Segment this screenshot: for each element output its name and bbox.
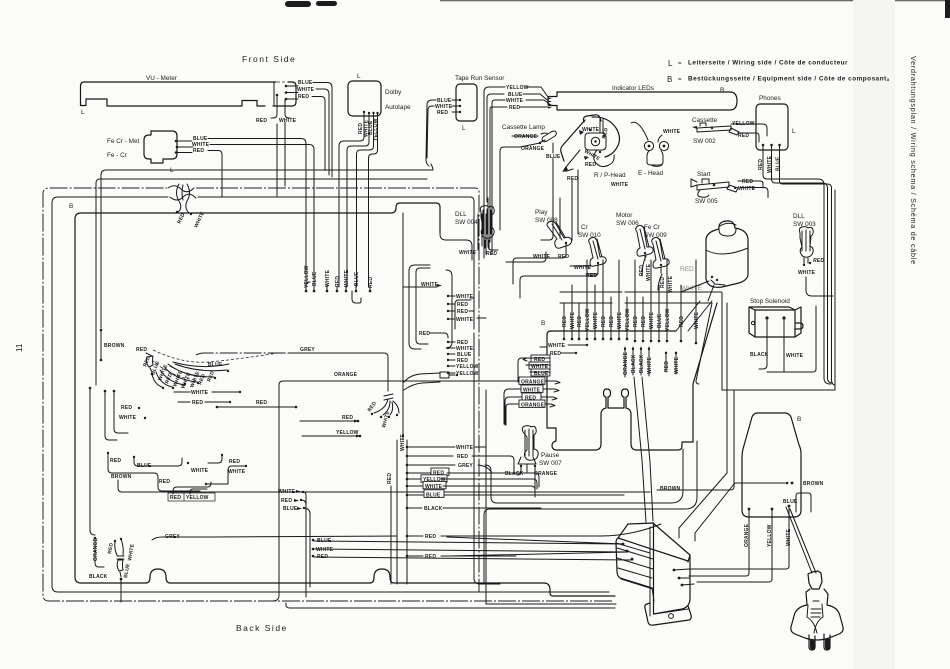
svg-text:Verdrahtungsplan / Wiring sche: Verdrahtungsplan / Wiring schema / Schém… bbox=[909, 56, 918, 265]
svg-text:WHITE: WHITE bbox=[325, 269, 331, 287]
svg-text:RED: RED bbox=[577, 316, 583, 327]
wire loop right-bottom pair bbox=[484, 441, 697, 584]
svg-text:RED: RED bbox=[110, 458, 121, 464]
svg-text:GREY: GREY bbox=[300, 347, 315, 353]
wire blue pair to plug bbox=[786, 493, 816, 573]
svg-text:ORANGE: ORANGE bbox=[93, 537, 99, 561]
Fe Cr switch SW009 bbox=[644, 224, 674, 293]
svg-text:YELLOW: YELLOW bbox=[506, 85, 529, 91]
connector bottom left bbox=[89, 537, 136, 602]
svg-text:RED: RED bbox=[558, 254, 569, 260]
central vertical wire bundle 16 bbox=[562, 260, 700, 344]
svg-text:RED: RED bbox=[680, 266, 694, 273]
svg-text:RED: RED bbox=[585, 162, 596, 168]
svg-text:BLUE: BLUE bbox=[426, 493, 441, 499]
svg-text:WHITE: WHITE bbox=[668, 275, 674, 293]
Cr switch SW010 bbox=[570, 224, 606, 279]
svg-text:Bestückungsseite / Equipment s: Bestückungsseite / Equipment side / Côte… bbox=[688, 76, 890, 83]
motor bbox=[680, 221, 748, 292]
svg-text:BROWN: BROWN bbox=[111, 474, 132, 480]
labels white red blue arrows bbox=[278, 489, 305, 512]
svg-text:RED: RED bbox=[419, 331, 430, 337]
Fe Cr-Met switch bbox=[107, 131, 314, 287]
svg-text:Indicator LEDs: Indicator LEDs bbox=[612, 85, 654, 92]
svg-text:BLUE: BLUE bbox=[312, 271, 318, 286]
svg-text:R / P-Head: R / P-Head bbox=[594, 172, 626, 179]
svg-text:WHITE: WHITE bbox=[119, 415, 137, 421]
Phones jack bbox=[756, 95, 835, 385]
svg-text:L: L bbox=[668, 59, 673, 68]
svg-text:WHITE: WHITE bbox=[583, 149, 601, 163]
svg-text:B: B bbox=[69, 203, 73, 210]
svg-text:B: B bbox=[797, 416, 801, 423]
svg-text:Fe Cr: Fe Cr bbox=[644, 224, 661, 231]
svg-text:RED: RED bbox=[136, 347, 147, 353]
main outer frame chain bbox=[43, 188, 612, 601]
transformer bbox=[616, 523, 691, 625]
horizontal connectors label column bbox=[455, 298, 486, 329]
svg-text:WHITE: WHITE bbox=[798, 270, 816, 276]
svg-text:WHITE: WHITE bbox=[738, 186, 756, 192]
svg-text:RED: RED bbox=[367, 400, 378, 413]
svg-text:SW 010: SW 010 bbox=[578, 232, 601, 239]
svg-text:RED: RED bbox=[457, 309, 468, 315]
svg-text:WHITE: WHITE bbox=[663, 129, 681, 135]
svg-text:11: 11 bbox=[15, 343, 24, 352]
svg-text:WHITE: WHITE bbox=[279, 118, 297, 124]
svg-text:L: L bbox=[462, 125, 466, 132]
svg-text:WHITE: WHITE bbox=[649, 311, 655, 329]
Tape Run Sensor bbox=[426, 75, 505, 166]
svg-text:SW 002: SW 002 bbox=[693, 138, 716, 145]
node row: seven wire ends left-center bbox=[304, 265, 374, 303]
svg-text:SW 007: SW 007 bbox=[539, 460, 562, 467]
wire buses upper-left to sensor bbox=[96, 164, 433, 385]
svg-text:Tape Run Sensor: Tape Run Sensor bbox=[455, 75, 505, 82]
Indicator LEDs bbox=[484, 85, 737, 203]
label column white red red white bbox=[403, 282, 479, 377]
svg-text:RED: RED bbox=[170, 495, 181, 501]
svg-text:RED: RED bbox=[176, 212, 186, 225]
svg-text:B: B bbox=[667, 75, 672, 84]
svg-text:BROWN: BROWN bbox=[104, 343, 125, 349]
svg-text:WHITE: WHITE bbox=[191, 390, 209, 396]
svg-text:YELLOW: YELLOW bbox=[585, 308, 591, 331]
svg-text:WHITE: WHITE bbox=[617, 311, 623, 329]
svg-text:WHITE: WHITE bbox=[456, 445, 474, 451]
svg-text:B: B bbox=[720, 87, 724, 94]
svg-text:WHITE: WHITE bbox=[611, 182, 629, 188]
svg-text:RED: RED bbox=[281, 498, 292, 504]
R/P-Head bbox=[561, 115, 629, 188]
svg-text:WHITE: WHITE bbox=[344, 269, 350, 287]
Cassette Lamp bbox=[500, 124, 561, 206]
svg-text:RED: RED bbox=[509, 105, 520, 111]
svg-text:WHITE: WHITE bbox=[278, 489, 296, 495]
svg-text:SW 004: SW 004 bbox=[455, 219, 478, 226]
svg-text:Autotape: Autotape bbox=[385, 104, 411, 111]
svg-text:WHITE: WHITE bbox=[674, 356, 680, 374]
connector arc mid bbox=[404, 372, 458, 390]
svg-text:Play: Play bbox=[535, 209, 548, 216]
svg-text:WHITE: WHITE bbox=[593, 311, 599, 329]
lower left labels bbox=[107, 452, 247, 501]
DLL switch SW004 bbox=[455, 206, 497, 257]
svg-text:RED: RED bbox=[609, 316, 615, 327]
svg-text:RED: RED bbox=[298, 94, 309, 100]
wire cassette sw002 to phones bbox=[750, 124, 767, 142]
svg-text:Motor: Motor bbox=[616, 212, 633, 219]
svg-text:BLACK: BLACK bbox=[424, 506, 443, 512]
svg-text:WHITE: WHITE bbox=[456, 317, 474, 323]
svg-text:ORANGE: ORANGE bbox=[521, 403, 545, 409]
wires motor to right loop bbox=[625, 281, 722, 390]
svg-text:WHITE: WHITE bbox=[191, 468, 209, 474]
svg-text:DLL: DLL bbox=[793, 213, 805, 220]
svg-text:ORANGE: ORANGE bbox=[514, 134, 538, 140]
svg-text:Cassette Lamp: Cassette Lamp bbox=[502, 124, 545, 131]
wire twist connector at frame top bbox=[168, 184, 206, 229]
svg-text:WHITE: WHITE bbox=[228, 469, 246, 475]
svg-text:Leiterseite / Wiring side / Cô: Leiterseite / Wiring side / Côte de cond… bbox=[688, 60, 848, 67]
svg-text:RED: RED bbox=[660, 277, 666, 288]
svg-text:Cr: Cr bbox=[581, 224, 589, 231]
svg-text:RED: RED bbox=[193, 148, 204, 154]
svg-text:RED: RED bbox=[256, 400, 267, 406]
svg-text:RED: RED bbox=[121, 405, 132, 411]
scan artifacts top bbox=[285, 0, 950, 669]
labels white red inside board bbox=[548, 343, 588, 357]
svg-text:BROWN: BROWN bbox=[803, 481, 824, 487]
svg-text:E - Head: E - Head bbox=[638, 170, 664, 177]
svg-text:ORANGE: ORANGE bbox=[623, 351, 629, 375]
wire orange bus bbox=[270, 372, 518, 601]
svg-text:RED: RED bbox=[567, 176, 578, 182]
wire brown stub left bbox=[100, 329, 125, 362]
svg-text:BLUE: BLUE bbox=[657, 313, 663, 328]
svg-text:WHITE: WHITE bbox=[767, 155, 773, 173]
svg-text:Fe - Cr: Fe - Cr bbox=[107, 152, 128, 159]
connector bundle left (red plug) bbox=[136, 347, 278, 390]
inner board bottom edge with notches bbox=[75, 569, 615, 596]
svg-text:BLUE: BLUE bbox=[776, 156, 782, 171]
svg-text:RED: RED bbox=[562, 316, 568, 327]
svg-text:RED: RED bbox=[550, 351, 561, 357]
svg-text:BLACK: BLACK bbox=[639, 354, 645, 373]
diagonal strip to motor bbox=[676, 301, 712, 331]
mains plug bbox=[791, 571, 843, 650]
svg-text:RED: RED bbox=[601, 316, 607, 327]
svg-text:YELLOW: YELLOW bbox=[625, 308, 631, 331]
svg-text:WHITE: WHITE bbox=[381, 410, 391, 429]
central board cutout shape bbox=[540, 303, 717, 450]
svg-text:RED: RED bbox=[425, 534, 436, 540]
svg-text:DLL: DLL bbox=[455, 211, 467, 218]
svg-text:=: = bbox=[678, 61, 682, 67]
svg-text:WHITE: WHITE bbox=[425, 484, 443, 490]
wires transformer right bbox=[674, 569, 694, 585]
svg-text:Pause: Pause bbox=[541, 452, 560, 459]
right loop around solenoid bbox=[722, 190, 835, 390]
svg-text:Phones: Phones bbox=[759, 95, 781, 102]
svg-text:BLACK: BLACK bbox=[89, 574, 108, 580]
left dot group bbox=[89, 387, 147, 535]
board shape B bottom right bbox=[742, 413, 824, 547]
wire black pair to transformer bbox=[634, 377, 653, 522]
svg-text:RED: RED bbox=[335, 276, 341, 287]
svg-text:RED: RED bbox=[192, 400, 203, 406]
svg-text:RED: RED bbox=[425, 554, 436, 560]
wire orange yellow white to transformer bbox=[689, 507, 789, 582]
svg-text:RED: RED bbox=[387, 473, 393, 484]
Play switch SW008 bbox=[533, 209, 572, 260]
Motor switch SW006 bbox=[616, 212, 653, 281]
wires diag to transformer bbox=[679, 473, 734, 541]
svg-text:RED: RED bbox=[738, 133, 749, 139]
Dolby Autotape unit bbox=[339, 73, 411, 287]
svg-text:WHITE: WHITE bbox=[127, 543, 136, 561]
svg-text:WHITE: WHITE bbox=[570, 311, 576, 329]
svg-text:SW 006: SW 006 bbox=[616, 220, 639, 227]
label stack red white blue mid bbox=[518, 355, 550, 382]
svg-text:RED: RED bbox=[641, 316, 647, 327]
svg-text:ORANGE: ORANGE bbox=[521, 146, 545, 152]
svg-text:L: L bbox=[792, 128, 796, 135]
wire grey long bbox=[152, 534, 397, 540]
svg-text:WHITE: WHITE bbox=[316, 547, 334, 553]
legend bbox=[667, 59, 890, 84]
wire bundle outline left-center bbox=[409, 265, 452, 349]
Cassette switch SW002 bbox=[692, 117, 755, 145]
svg-text:Fe Cr - Met: Fe Cr - Met bbox=[107, 138, 140, 145]
wire red bus bbox=[216, 400, 298, 408]
svg-text:Back Side: Back Side bbox=[236, 623, 288, 633]
svg-text:BLACK: BLACK bbox=[631, 354, 637, 373]
svg-text:RED: RED bbox=[342, 415, 353, 421]
svg-text:WHITE: WHITE bbox=[456, 294, 474, 300]
svg-text:WHITE: WHITE bbox=[647, 356, 653, 374]
svg-text:Stop Solenoid: Stop Solenoid bbox=[750, 298, 790, 305]
Stop Solenoid bbox=[749, 298, 804, 372]
main frame solid bbox=[52, 197, 609, 592]
svg-text:WHITE: WHITE bbox=[506, 98, 524, 104]
svg-text:RED: RED bbox=[159, 479, 170, 485]
svg-text:YELLOW: YELLOW bbox=[186, 495, 209, 501]
label stack orange white red orange bbox=[504, 377, 560, 425]
svg-text:Front Side: Front Side bbox=[242, 54, 296, 64]
rotated labels orange black black white bbox=[623, 347, 680, 377]
svg-text:=: = bbox=[678, 77, 682, 83]
inner board frame B top bbox=[69, 203, 440, 577]
svg-text:L: L bbox=[357, 73, 361, 80]
wire start sw down bbox=[754, 181, 768, 198]
wire extensions center verticals bbox=[484, 198, 553, 258]
svg-text:SW 005: SW 005 bbox=[695, 198, 718, 205]
wire brown bus bbox=[170, 482, 788, 492]
svg-text:WHITE: WHITE bbox=[786, 353, 804, 359]
svg-text:YELLOW: YELLOW bbox=[456, 371, 479, 377]
svg-text:Start: Start bbox=[697, 171, 711, 178]
wire connections switch row bbox=[440, 214, 490, 260]
svg-text:WHITE: WHITE bbox=[533, 254, 551, 260]
wire DLL SW003 down bbox=[806, 277, 833, 296]
svg-text:BLACK: BLACK bbox=[750, 352, 769, 358]
svg-text:RED: RED bbox=[229, 459, 240, 465]
wire VU blue/white/red bbox=[286, 86, 298, 99]
DLL switch SW003 bbox=[793, 213, 824, 276]
svg-text:BLUE: BLUE bbox=[298, 80, 313, 86]
svg-text:GREY: GREY bbox=[458, 463, 473, 469]
svg-text:RED: RED bbox=[664, 361, 670, 372]
svg-text:YELLOW: YELLOW bbox=[456, 364, 479, 370]
labels white red under bundle bbox=[174, 390, 241, 406]
svg-text:RED: RED bbox=[107, 542, 115, 554]
svg-text:RED: RED bbox=[457, 302, 468, 308]
svg-text:RED: RED bbox=[437, 110, 448, 116]
svg-text:BLUE: BLUE bbox=[123, 563, 131, 579]
svg-text:BLUE: BLUE bbox=[317, 538, 332, 544]
wires into transformer left bbox=[314, 537, 633, 560]
svg-text:BLUE: BLUE bbox=[208, 362, 223, 368]
svg-text:B: B bbox=[541, 320, 545, 327]
svg-text:BLUE: BLUE bbox=[283, 506, 298, 512]
svg-text:RED: RED bbox=[206, 370, 216, 383]
labels blue white red bottom left-center bbox=[301, 492, 334, 597]
svg-text:WHITE: WHITE bbox=[582, 127, 600, 133]
E-Head bbox=[631, 122, 681, 177]
svg-text:YELLOW: YELLOW bbox=[665, 308, 671, 331]
svg-text:YELLOW: YELLOW bbox=[336, 430, 359, 436]
svg-text:RED: RED bbox=[813, 258, 824, 264]
svg-text:Dolby: Dolby bbox=[385, 89, 402, 96]
Pause switch SW007 bbox=[505, 426, 562, 497]
svg-text:RED: RED bbox=[633, 316, 639, 327]
VU-Meter bbox=[81, 75, 333, 196]
svg-text:WHITE: WHITE bbox=[297, 87, 315, 93]
svg-text:ORANGE: ORANGE bbox=[334, 372, 358, 378]
svg-text:RED: RED bbox=[368, 277, 374, 288]
svg-text:BLUE: BLUE bbox=[354, 271, 360, 286]
svg-text:BROWN: BROWN bbox=[660, 486, 681, 492]
wire grey bus bbox=[196, 347, 399, 429]
bottom horizontal wires bbox=[286, 603, 615, 608]
svg-text:WHITE: WHITE bbox=[548, 343, 566, 349]
svg-text:YELLOW: YELLOW bbox=[304, 265, 310, 288]
svg-text:L: L bbox=[81, 109, 85, 116]
svg-text:VU - Meter: VU - Meter bbox=[146, 75, 178, 82]
svg-text:RED: RED bbox=[317, 554, 328, 560]
svg-text:RED: RED bbox=[256, 118, 267, 124]
svg-text:RED: RED bbox=[457, 454, 468, 460]
center-bottom dot column bbox=[387, 213, 661, 584]
Start switch SW005 bbox=[691, 171, 758, 205]
svg-text:RED: RED bbox=[601, 127, 610, 140]
svg-text:RED: RED bbox=[742, 179, 753, 185]
labels red yellow mid bbox=[300, 415, 361, 438]
